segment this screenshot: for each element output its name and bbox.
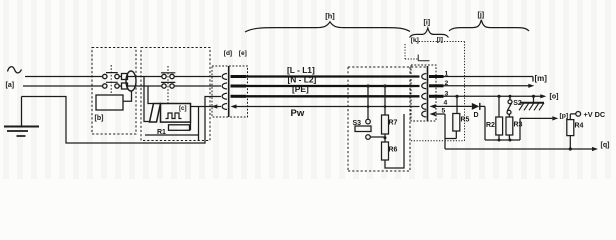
- svg-text:2: 2: [445, 80, 449, 87]
- svg-text:R5: R5: [461, 117, 470, 124]
- svg-text:[o]: [o]: [550, 93, 559, 100]
- svg-text:[m]: [m]: [535, 74, 548, 83]
- svg-text:R6: R6: [389, 147, 398, 154]
- svg-text:[a]: [a]: [6, 82, 15, 89]
- svg-text:S3: S3: [353, 120, 362, 127]
- svg-text:R7: R7: [389, 120, 398, 127]
- svg-text:4: 4: [444, 99, 448, 106]
- svg-text:[q]: [q]: [601, 142, 610, 149]
- svg-text:R4: R4: [575, 123, 584, 130]
- svg-text:R3: R3: [514, 122, 523, 129]
- svg-text:[c]: [c]: [179, 105, 187, 112]
- svg-text:[b]: [b]: [95, 115, 104, 122]
- svg-text:[e]: [e]: [239, 50, 247, 57]
- svg-text:D: D: [474, 112, 479, 119]
- svg-text:3: 3: [445, 90, 449, 97]
- svg-text:[d]: [d]: [224, 50, 232, 57]
- svg-text:R1: R1: [157, 129, 166, 136]
- svg-text:5: 5: [442, 108, 446, 115]
- svg-text:[k]: [k]: [411, 37, 419, 44]
- svg-text:+V DC: +V DC: [584, 110, 606, 119]
- svg-text:Pw: Pw: [291, 108, 305, 119]
- svg-text:[N - L2]: [N - L2]: [288, 74, 317, 84]
- svg-text:[i]: [i]: [424, 20, 431, 27]
- svg-text:S2: S2: [513, 100, 522, 107]
- svg-text:[h]: [h]: [325, 12, 335, 21]
- svg-text:[l]: [l]: [437, 36, 443, 43]
- svg-text:R2: R2: [486, 122, 495, 129]
- svg-text:[j]: [j]: [478, 12, 485, 19]
- svg-text:1: 1: [445, 71, 449, 78]
- svg-text:[p]: [p]: [560, 113, 569, 120]
- svg-text:[PE]: [PE]: [292, 84, 309, 94]
